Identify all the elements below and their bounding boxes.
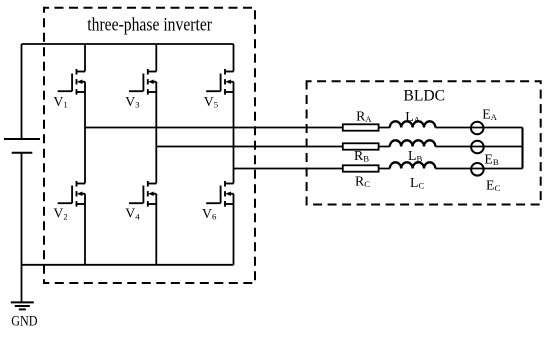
wire: phase B line xyxy=(156,146,389,148)
wire: phase C line xyxy=(234,168,390,170)
wire: leg2 V4 source to bottom rail xyxy=(155,204,157,265)
svg-text:V2: V2 xyxy=(53,206,67,222)
resistor RC xyxy=(343,165,379,171)
battery cell xyxy=(4,138,40,140)
wire: leg1 V2 source to bottom rail xyxy=(84,204,86,265)
wire: leg1 drain V1 xyxy=(84,44,86,72)
svg-text:V3: V3 xyxy=(125,94,140,110)
wire: phase A inductor to neutral xyxy=(435,127,522,129)
wire: leg3 V5 source to phase C node xyxy=(233,92,235,169)
resistor RA xyxy=(343,124,379,130)
inductor LB xyxy=(390,140,436,146)
svg-text:EB: EB xyxy=(484,151,498,167)
wire: phase B inductor to neutral xyxy=(435,146,522,148)
wire: leg3 V6 drain xyxy=(233,169,235,184)
svg-text:LB: LB xyxy=(408,148,422,164)
wire: neutral star point vertical xyxy=(521,128,523,169)
svg-text:EC: EC xyxy=(486,178,500,194)
wire: leg1 V1 source to phase A node xyxy=(84,92,86,128)
svg-text:three-phase inverter: three-phase inverter xyxy=(87,16,212,36)
svg-text:RC: RC xyxy=(355,173,370,189)
wire: leg2 V4 drain xyxy=(155,147,157,184)
wire: battery positive lead xyxy=(21,44,23,139)
svg-text:RA: RA xyxy=(356,109,372,125)
wire: leg1 V2 drain xyxy=(84,128,86,184)
inductor LA xyxy=(390,121,436,127)
wire: leg2 drain V3 xyxy=(155,44,157,72)
wire: leg3 V6 source to bottom rail xyxy=(233,204,235,265)
transistor V6 xyxy=(206,181,233,207)
transistor V4 xyxy=(129,181,156,207)
svg-text:BLDC: BLDC xyxy=(403,88,445,105)
svg-text:V4: V4 xyxy=(125,206,140,222)
inductor LC xyxy=(390,162,436,168)
svg-text:V6: V6 xyxy=(202,206,217,222)
EMF source EC xyxy=(471,163,484,176)
wire: phase C inductor to neutral xyxy=(435,168,522,170)
EMF source EB xyxy=(471,141,484,154)
wire: bottom return rail xyxy=(22,264,234,266)
transistor V1 xyxy=(58,69,85,95)
wire: leg2 V3 source to phase B node xyxy=(155,92,157,147)
resistor RB xyxy=(343,143,379,149)
ground xyxy=(11,301,34,303)
svg-text:LC: LC xyxy=(410,175,424,191)
transistor V3 xyxy=(129,69,156,95)
wire: phase A line xyxy=(85,127,390,129)
BLDC enclosure dashed box xyxy=(307,81,541,204)
wire: top DC rail xyxy=(22,43,234,45)
svg-text:V5: V5 xyxy=(204,94,219,110)
svg-text:V1: V1 xyxy=(53,94,67,110)
inverter enclosure dashed box xyxy=(44,8,255,283)
wire: battery negative lead down to ground xyxy=(21,153,23,302)
transistor V5 xyxy=(206,69,233,95)
EMF source EA xyxy=(471,122,484,135)
svg-text:GND: GND xyxy=(11,313,37,329)
wire: leg3 drain V5 xyxy=(233,44,235,72)
svg-text:EA: EA xyxy=(482,107,497,123)
svg-text:LA: LA xyxy=(405,109,420,125)
transistor V2 xyxy=(58,181,85,207)
